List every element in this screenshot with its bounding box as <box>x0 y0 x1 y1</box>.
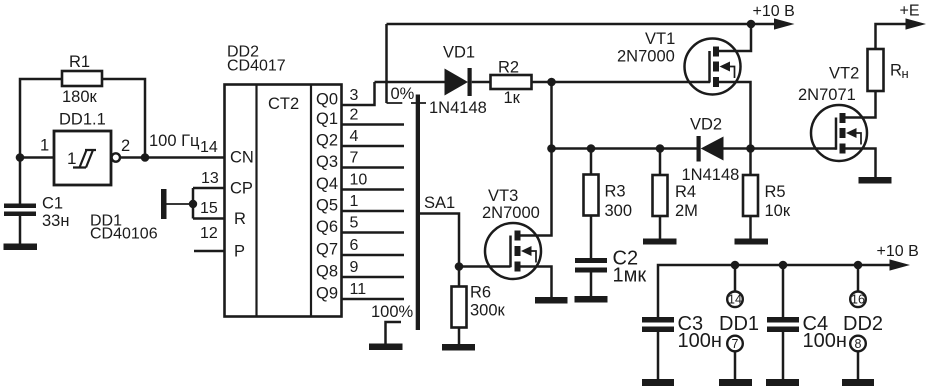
svg-text:Q7: Q7 <box>316 241 338 259</box>
ground R5 <box>735 239 769 245</box>
wire C2 to ground <box>590 273 593 297</box>
svg-text:2N7000: 2N7000 <box>482 204 540 222</box>
svg-text:10: 10 <box>350 172 368 189</box>
svg-text:7: 7 <box>732 337 739 351</box>
wire down to mid rail <box>550 82 553 149</box>
ground VT2 source <box>859 177 892 184</box>
wire 100% contact <box>386 322 402 344</box>
svg-text:2N7000: 2N7000 <box>617 48 675 66</box>
wire VT2 source <box>846 149 876 178</box>
svg-text:Q0: Q0 <box>316 91 338 109</box>
wire left vertical and R1 top loop <box>20 79 62 204</box>
resistor R5 <box>743 149 791 221</box>
svg-text:4: 4 <box>350 128 359 145</box>
resistor Rn load <box>868 49 909 91</box>
diode VD1 <box>429 44 487 118</box>
svg-text:1: 1 <box>40 137 49 155</box>
svg-text:CT2: CT2 <box>268 95 299 113</box>
wire mid rail left segment <box>552 147 697 150</box>
resistor R4 <box>653 149 698 221</box>
svg-text:VT2: VT2 <box>829 65 859 83</box>
svg-text:CP: CP <box>230 180 253 198</box>
IC DD2 counter <box>225 85 342 317</box>
transistor VT1 <box>617 30 741 95</box>
wire VT1 drain <box>719 24 751 51</box>
svg-text:180к: 180к <box>62 88 98 106</box>
Q3 output pin 7 <box>316 150 404 172</box>
svg-text:2: 2 <box>121 137 130 155</box>
svg-text:0%: 0% <box>391 85 415 103</box>
Q7 output pin 6 <box>316 237 404 259</box>
power rail +10 V top <box>387 3 795 30</box>
svg-text:14: 14 <box>200 139 218 156</box>
svg-text:DD1.1: DD1.1 <box>59 111 106 129</box>
svg-text:CD40106: CD40106 <box>90 226 158 243</box>
svg-text:100 Гц: 100 Гц <box>149 132 200 150</box>
diode VD2 <box>682 136 740 184</box>
svg-text:11: 11 <box>350 281 367 298</box>
ground C2 <box>575 296 608 303</box>
svg-text:CN: CN <box>230 149 254 167</box>
svg-text:2: 2 <box>350 107 359 124</box>
svg-text:100н: 100н <box>678 330 722 352</box>
node junction gate VT3 <box>455 262 464 271</box>
Q0 output pin 3 <box>316 82 375 109</box>
switch SA1 bar <box>416 95 420 331</box>
node junction output DD1.1 <box>141 153 150 162</box>
capacitor C4 <box>767 265 847 352</box>
ground DD2 <box>842 379 874 386</box>
svg-text:DD2: DD2 <box>843 313 883 335</box>
DD1 pin 7 ground <box>727 336 743 379</box>
node junction C4 <box>779 261 788 270</box>
svg-text:100%: 100% <box>371 303 414 321</box>
svg-text:Q5: Q5 <box>316 197 338 215</box>
wire to ground <box>166 203 193 205</box>
svg-text:1мк: 1мк <box>613 265 647 287</box>
svg-text:6: 6 <box>350 237 359 254</box>
svg-text:Q3: Q3 <box>316 153 338 171</box>
svg-text:2N7071: 2N7071 <box>798 86 856 104</box>
svg-text:Q8: Q8 <box>316 263 338 281</box>
resistor R2 <box>491 59 532 108</box>
svg-text:12: 12 <box>200 225 218 242</box>
node junction rail VT1 drain <box>747 20 756 29</box>
svg-text:DD1: DD1 <box>719 313 759 335</box>
svg-text:5: 5 <box>350 215 359 232</box>
Q2 output pin 4 <box>316 128 404 150</box>
svg-text:14: 14 <box>728 293 742 307</box>
wire mid rail right segment to VT2 gate <box>724 147 837 150</box>
svg-text:13: 13 <box>201 170 219 187</box>
svg-text:R: R <box>890 62 902 80</box>
label DD2 CD4017 <box>227 44 286 75</box>
svg-text:10к: 10к <box>765 202 791 220</box>
capacitor C2 <box>575 248 646 287</box>
svg-text:33н: 33н <box>42 212 69 230</box>
svg-text:Q2: Q2 <box>316 132 338 150</box>
power rail +E <box>876 3 927 50</box>
DD2 pin 8 ground <box>850 336 866 379</box>
power rail +10 V bottom <box>658 243 919 317</box>
node junction R5 <box>746 144 755 153</box>
wire input DD1.1 <box>20 156 54 159</box>
wire SA1 wiper <box>420 214 459 267</box>
svg-text:1N4148: 1N4148 <box>429 99 487 117</box>
Q6 output pin 5 <box>316 215 404 237</box>
svg-text:300: 300 <box>605 202 633 220</box>
svg-text:R4: R4 <box>675 183 696 201</box>
capacitor C1 <box>4 195 69 244</box>
node junction DD2 supply <box>854 261 863 270</box>
ground VT3 source <box>535 297 568 304</box>
ground R6 <box>442 344 475 351</box>
node junction <box>189 200 197 208</box>
svg-text:VD1: VD1 <box>443 44 475 62</box>
wire VD1 to R2 <box>472 81 491 84</box>
wire R6 to ground <box>458 328 461 345</box>
svg-text:3: 3 <box>350 87 359 104</box>
wire 0% contact <box>387 102 427 104</box>
node junction R2 out <box>547 78 556 87</box>
svg-text:7: 7 <box>350 150 359 167</box>
ground C3 <box>642 379 674 386</box>
svg-text:R2: R2 <box>498 59 519 77</box>
svg-text:R: R <box>234 210 246 228</box>
wire R5 to ground <box>749 216 752 239</box>
svg-text:15: 15 <box>200 200 218 217</box>
wire C4 to ground <box>782 332 785 379</box>
pin 15 wire R <box>193 200 225 219</box>
svg-text:1: 1 <box>67 149 76 168</box>
resistor R6 <box>452 267 506 328</box>
capacitor C3 <box>642 313 722 352</box>
svg-text:+E: +E <box>900 3 920 20</box>
wire VT2 drain <box>846 91 876 118</box>
node junction mid rail <box>547 144 556 153</box>
node junction C1 <box>16 153 25 162</box>
svg-text:R6: R6 <box>470 284 491 302</box>
ground R4 <box>643 239 677 245</box>
Schmitt trigger DD1.1 <box>54 111 120 186</box>
Q4 output pin 10 <box>316 172 404 194</box>
node junction R4 <box>656 144 665 153</box>
svg-text:VT3: VT3 <box>488 187 518 205</box>
svg-text:1N4148: 1N4148 <box>682 166 740 184</box>
svg-text:100н: 100н <box>803 330 847 352</box>
svg-text:R1: R1 <box>69 53 90 71</box>
svg-text:8: 8 <box>855 337 862 351</box>
resistor R3 <box>584 149 633 221</box>
wire bracket pins 13-15 <box>192 188 195 219</box>
svg-text:CD4017: CD4017 <box>227 58 286 75</box>
svg-text:+10 В: +10 В <box>753 3 795 20</box>
ground CP R <box>161 189 167 219</box>
wire to VT3 gate <box>459 265 511 268</box>
svg-text:Q6: Q6 <box>316 218 338 236</box>
pin 12 stub P <box>194 225 225 251</box>
svg-text:1к: 1к <box>504 89 521 107</box>
svg-text:2M: 2M <box>675 202 698 220</box>
Q8 output pin 9 <box>316 259 404 281</box>
svg-text:1: 1 <box>350 193 359 210</box>
svg-text:Q9: Q9 <box>316 285 338 303</box>
wire DD1.1 output to CN <box>120 156 225 159</box>
svg-text:R3: R3 <box>605 183 626 201</box>
wire R4 to ground <box>659 216 662 239</box>
svg-text:9: 9 <box>350 259 359 276</box>
svg-text:VD2: VD2 <box>690 116 722 134</box>
ground C4 <box>766 379 799 386</box>
resistor R1 <box>62 53 102 106</box>
wire +10V drop to 0% <box>385 24 388 103</box>
Q1 output pin 2 <box>316 107 404 129</box>
wire VT3 source <box>521 267 552 298</box>
label DD1 CD40106 <box>90 213 158 243</box>
DD1 pin 14 supply <box>727 265 743 307</box>
wire Q0 row to VD1 <box>375 81 445 84</box>
transistor VT2 <box>798 65 867 162</box>
Q9 output pin 11 <box>316 281 404 303</box>
Q5 output pin 1 <box>316 193 404 215</box>
transistor VT3 <box>482 187 541 279</box>
ground 100% <box>369 344 403 351</box>
svg-text:VT1: VT1 <box>645 30 675 48</box>
svg-text:+10 В: +10 В <box>877 243 919 260</box>
svg-text:Q4: Q4 <box>316 175 338 193</box>
wire C3 to ground <box>657 332 660 379</box>
svg-text:300к: 300к <box>470 302 506 320</box>
svg-text:Q1: Q1 <box>316 110 338 128</box>
DD2 pin 16 supply <box>850 265 866 307</box>
svg-text:н: н <box>902 66 909 81</box>
wire R1 to node <box>102 79 145 158</box>
node junction DD1 supply <box>731 261 740 270</box>
wire VT3 drain <box>521 149 552 236</box>
svg-text:16: 16 <box>851 293 865 307</box>
svg-text:R5: R5 <box>765 183 786 201</box>
wire VT1 source <box>719 82 751 149</box>
ground DD1 <box>719 379 752 386</box>
wire R3 to C2 <box>590 216 593 259</box>
svg-text:C1: C1 <box>42 195 63 213</box>
svg-text:SA1: SA1 <box>424 194 455 212</box>
node junction R3 <box>587 144 596 153</box>
svg-text:P: P <box>234 243 245 261</box>
pin 13 wire CP <box>193 170 225 188</box>
wire R2 to VT1 gate <box>532 81 711 84</box>
ground C1 <box>4 244 38 251</box>
